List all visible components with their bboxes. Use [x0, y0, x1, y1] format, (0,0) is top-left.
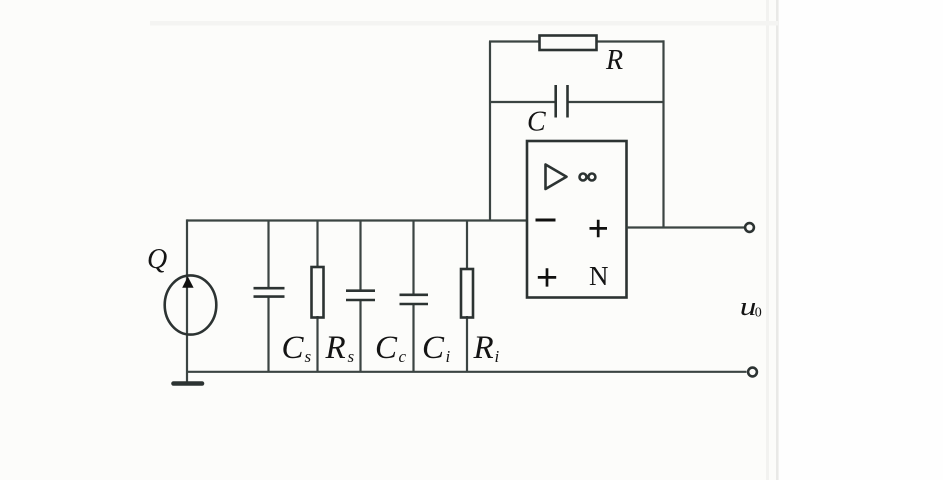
resistor Rs — [312, 267, 324, 318]
svg-text:R: R — [473, 330, 494, 366]
infinity symbol — [580, 174, 587, 181]
svg-text:C: C — [282, 330, 305, 366]
wire: Ci branch — [412, 221, 414, 294]
wire: Cc branch — [359, 221, 361, 290]
capacitor Cc — [346, 289, 375, 292]
plus (output) — [590, 220, 608, 237]
svg-text:i: i — [446, 347, 451, 366]
wire: bottom rail — [186, 371, 747, 373]
wire: feedback right vertical — [662, 40, 664, 227]
output terminal — [745, 223, 754, 232]
plus (non-inverting input) — [538, 268, 556, 286]
svg-text:C: C — [422, 330, 445, 366]
wire: left vertical from source — [186, 219, 188, 371]
resistor Ri — [461, 269, 473, 318]
svg-text:C: C — [527, 107, 546, 138]
resistor R — [540, 36, 597, 51]
op-amp U1 box — [527, 141, 627, 298]
capacitor Cs — [254, 287, 285, 290]
svg-text:Q: Q — [147, 244, 167, 275]
wire: feedback top segments — [489, 40, 540, 42]
wire: top input rail — [187, 219, 527, 221]
wire: Rs branch — [316, 221, 318, 269]
svg-text:s: s — [305, 347, 312, 366]
svg-text:N: N — [589, 261, 609, 291]
bottom terminal — [748, 368, 757, 377]
wire: feedback mid segments — [489, 101, 555, 103]
wire: Ri branch — [466, 221, 468, 271]
svg-text:R: R — [325, 330, 346, 366]
svg-text:C: C — [375, 330, 398, 366]
svg-text:i: i — [495, 347, 500, 366]
op-amp triangle — [546, 165, 567, 190]
capacitor C — [554, 85, 557, 118]
minus (inverting input) — [536, 219, 556, 222]
svg-text:0: 0 — [755, 306, 762, 321]
wire: feedback left vertical — [489, 42, 491, 222]
source Q — [165, 275, 217, 334]
capacitor Ci — [400, 293, 429, 296]
wire: output — [627, 226, 745, 228]
wire: Cs branch — [267, 221, 269, 288]
ground — [186, 372, 188, 382]
svg-text:s: s — [348, 347, 355, 366]
svg-text:R: R — [605, 45, 623, 76]
svg-text:c: c — [399, 347, 407, 366]
